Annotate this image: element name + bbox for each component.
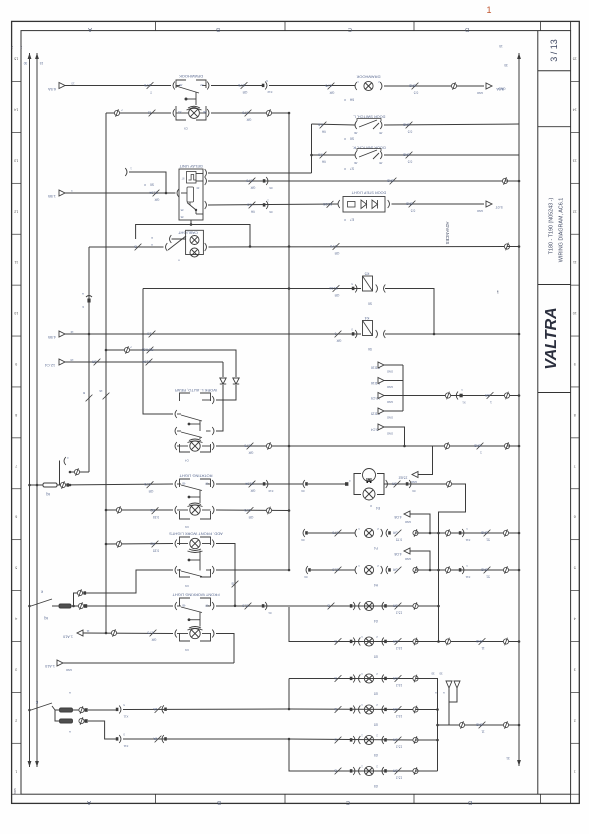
svg-text:GR: GR <box>250 489 255 493</box>
svg-text:-85: -85 <box>379 131 383 135</box>
svg-text:6: 6 <box>15 515 17 519</box>
svg-text:VALTRA: VALTRA <box>543 307 560 370</box>
svg-text:GR: GR <box>151 638 156 642</box>
svg-text:15.2: 15.2 <box>396 745 402 749</box>
svg-text:0.5: 0.5 <box>414 91 419 95</box>
svg-text:C9: C9 <box>185 648 189 652</box>
svg-text:S6: S6 <box>368 347 372 351</box>
svg-text:1.5B: 1.5B <box>48 194 56 198</box>
svg-text:ROTATING LIGHT: ROTATING LIGHT <box>179 474 213 479</box>
svg-text:30: 30 <box>504 63 508 67</box>
terminals row 446 right <box>444 443 449 448</box>
node bus GND vertical x289 <box>288 113 290 570</box>
jog wire fuse2 to row 739 <box>88 721 117 739</box>
svg-text:-87: -87 <box>200 83 204 87</box>
svg-text:DOOR STEP LIGHT: DOOR STEP LIGHT <box>351 191 386 195</box>
svg-text:GND: GND <box>387 416 393 420</box>
svg-text:11: 11 <box>14 260 18 264</box>
fuse F2 row 721 <box>60 719 73 723</box>
svg-text:GR: GR <box>246 118 251 122</box>
svg-text:GR: GR <box>392 531 397 535</box>
svg-text:31: 31 <box>506 756 510 760</box>
diode V1 <box>233 378 239 384</box>
ground output row 725 <box>438 724 520 726</box>
svg-text:GR: GR <box>154 198 159 202</box>
svg-text:DOOR SWITCH, L.: DOOR SWITCH, L. <box>353 115 386 119</box>
svg-text:6Q: 6Q <box>45 492 50 496</box>
svg-text:D: D <box>468 799 472 805</box>
svg-text:GR: GR <box>392 707 397 711</box>
svg-text:0.75: 0.75 <box>246 179 252 183</box>
svg-text:C4: C4 <box>185 459 189 463</box>
svg-text:18: 18 <box>70 358 74 362</box>
wire 12.C9 row to ground bus <box>403 395 519 397</box>
svg-text:B: B <box>334 639 336 643</box>
svg-text:av: av <box>496 290 500 294</box>
svg-text:B: B <box>334 738 336 742</box>
svg-text:0.75: 0.75 <box>325 84 331 88</box>
wire work auto lamp to right <box>216 445 507 447</box>
svg-text:GR: GR <box>329 91 334 95</box>
vertical wire x89 with inline joint <box>88 247 90 472</box>
connector 4.D8 stub row533 <box>410 514 430 533</box>
bottom lamp row y=740 G5 <box>335 737 342 744</box>
delay unit pin row 181 <box>205 177 207 185</box>
add front switch contacts <box>175 566 177 574</box>
svg-text:X11: X11 <box>465 575 470 579</box>
wire top edge work auto <box>143 288 289 290</box>
svg-text:13: 13 <box>14 158 18 162</box>
svg-text:16: 16 <box>99 389 103 393</box>
svg-text:11: 11 <box>573 260 577 264</box>
svg-text:4.5B: 4.5B <box>48 335 56 339</box>
row 709 right segment to collector <box>289 708 416 711</box>
collector vertical right bottom block <box>416 679 438 772</box>
svg-text:K5: K5 <box>365 272 370 276</box>
antenna symbols pair <box>446 681 452 688</box>
svg-text:GR: GR <box>484 393 489 397</box>
svg-text:2: 2 <box>15 718 17 722</box>
svg-text:0.75: 0.75 <box>396 538 402 542</box>
wire row 641 to ground bus <box>416 641 520 643</box>
svg-text:15: 15 <box>499 44 503 48</box>
svg-text:GR: GR <box>336 339 341 343</box>
wire door switch L to ground bus <box>384 124 519 125</box>
svg-text:51.0/5: 51.0/5 <box>323 202 332 206</box>
wire row 570 to ground bus <box>416 569 520 571</box>
svg-text:8: 8 <box>574 413 576 417</box>
wire 1.5B to delay unit pin 30 <box>65 192 176 194</box>
row 180 plain wire <box>288 180 290 182</box>
svg-text:11: 11 <box>481 730 485 734</box>
drawhook unit lamp <box>173 109 175 117</box>
svg-text:GR: GR <box>392 769 397 773</box>
svg-text:B: B <box>334 707 336 711</box>
vertical link door switches <box>311 124 313 173</box>
svg-text:GND: GND <box>480 568 488 572</box>
svg-text:1.5: 1.5 <box>147 332 152 336</box>
svg-text:51.5: 51.5 <box>332 568 338 572</box>
svg-text:12: 12 <box>573 209 577 213</box>
svg-text:GR: GR <box>248 451 253 455</box>
fuse F1 row 710 <box>60 708 73 712</box>
svg-text:X10: X10 <box>268 489 273 493</box>
svg-text:51.04: 51.04 <box>245 482 253 486</box>
svg-text:6H: 6H <box>349 98 354 102</box>
lamp row 606 right <box>364 601 373 610</box>
svg-text:0.5: 0.5 <box>318 153 323 157</box>
bus 15 left (vertical supply line 2) <box>35 53 39 59</box>
svg-text:8: 8 <box>15 413 17 417</box>
wire row 350 diode branch <box>106 350 236 377</box>
rotating light switch contacts <box>175 480 177 488</box>
svg-text:G5: G5 <box>374 692 378 696</box>
svg-text:1: 1 <box>480 451 482 455</box>
svg-text:B: B <box>83 391 85 395</box>
svg-text:GND: GND <box>475 723 483 727</box>
svg-text:GND: GND <box>405 557 411 561</box>
bottom zone band dividers <box>155 794 157 803</box>
svg-text:G5: G5 <box>374 784 378 788</box>
svg-text:15: 15 <box>14 57 18 61</box>
svg-text:2: 2 <box>574 718 576 722</box>
svg-text:K4: K4 <box>365 316 370 320</box>
svg-text:S6: S6 <box>150 183 154 187</box>
svg-text:0.75: 0.75 <box>244 444 250 448</box>
svg-text:0.75: 0.75 <box>238 83 244 87</box>
svg-text:51.04: 51.04 <box>142 360 150 364</box>
svg-text:E4: E4 <box>376 506 380 510</box>
svg-text:S6: S6 <box>368 302 372 306</box>
svg-text:GND: GND <box>387 370 393 374</box>
svg-text:GND: GND <box>408 84 416 88</box>
svg-text:1.A10: 1.A10 <box>45 664 55 668</box>
svg-text:-86: -86 <box>354 161 358 165</box>
svg-text:7: 7 <box>15 464 17 468</box>
svg-text:51: 51 <box>486 538 490 542</box>
wire row 607 to row 641 jog on x289 <box>289 607 416 642</box>
svg-text:GR: GR <box>91 360 96 364</box>
svg-text:14: 14 <box>14 107 18 111</box>
svg-text:2: 2 <box>11 45 13 49</box>
delay unit pin row 205 to door step light <box>205 201 207 209</box>
svg-text:ADVANCES: ADVANCES <box>445 222 450 245</box>
wire front working switch to right <box>216 605 439 607</box>
svg-text:15.2: 15.2 <box>396 611 402 615</box>
svg-text:D: D <box>465 26 469 32</box>
svg-text:F4: F4 <box>374 546 378 550</box>
bottom lamp row y=771 G5 <box>335 768 342 775</box>
jog x289 row 771 <box>289 739 416 771</box>
svg-text:1: 1 <box>486 5 491 15</box>
work auto box pins and contacts <box>175 410 177 418</box>
svg-text:0.5: 0.5 <box>408 160 413 164</box>
rotating beacon E4 (motor+lamp) <box>354 474 361 485</box>
wire add front lamp left feed <box>106 543 173 546</box>
svg-text:-85: -85 <box>179 83 183 87</box>
svg-text:X1: X1 <box>462 401 466 405</box>
svg-text:G4: G4 <box>374 619 378 623</box>
svg-text:1.A10: 1.A10 <box>63 635 73 639</box>
svg-text:15: 15 <box>40 61 44 65</box>
svg-text:13: 13 <box>573 158 577 162</box>
svg-text:M: M <box>366 476 372 483</box>
svg-text:4.D8: 4.D8 <box>394 515 401 519</box>
svg-text:14: 14 <box>573 107 577 111</box>
bottom lamp row y=709.5 G5 <box>335 706 342 713</box>
wire door step light to connector 5.0T <box>392 203 485 205</box>
svg-text:35: 35 <box>431 672 435 676</box>
wire row 113 from x106 to x289 bus <box>106 112 171 114</box>
svg-text:C9: C9 <box>185 584 189 588</box>
svg-text:-85: -85 <box>182 604 186 608</box>
left zone column ticks and numbers <box>12 81 21 83</box>
wire door switch R to ground bus <box>384 154 519 156</box>
delay unit internal relay contact <box>187 172 197 184</box>
svg-text:GND: GND <box>477 91 483 95</box>
title block strip <box>537 31 539 795</box>
svg-text:E7: E7 <box>350 218 354 222</box>
svg-text:GND: GND <box>66 668 72 672</box>
wire relay K5 to corner <box>385 289 434 335</box>
svg-text:9: 9 <box>15 362 17 366</box>
svg-text:GND: GND <box>411 480 417 484</box>
svg-text:B: B <box>134 245 136 249</box>
svg-text:6.5A: 6.5A <box>48 87 56 91</box>
svg-text:51.04: 51.04 <box>329 286 337 290</box>
diode V2 <box>222 362 224 377</box>
cab light switch lever <box>166 243 168 251</box>
svg-text:GND: GND <box>402 123 410 127</box>
svg-text:A: A <box>151 243 153 247</box>
svg-text:0.5: 0.5 <box>318 123 323 127</box>
svg-text:S6: S6 <box>350 137 354 141</box>
svg-text:RD: RD <box>150 542 155 546</box>
front working switch contacts <box>175 602 177 610</box>
svg-text:X9: X9 <box>304 575 308 579</box>
wire door switch left feed <box>312 124 356 125</box>
top zone band dividers <box>155 21 157 30</box>
svg-text:X11: X11 <box>123 715 128 719</box>
svg-text:B: B <box>217 799 221 805</box>
svg-text:51.5: 51.5 <box>242 604 248 608</box>
svg-text:11: 11 <box>148 111 152 115</box>
svg-text:B: B <box>334 676 336 680</box>
svg-text:GR: GR <box>392 639 397 643</box>
row 533 lamp circuit <box>303 529 305 537</box>
svg-text:X6: X6 <box>269 210 273 214</box>
svg-text:51: 51 <box>486 575 490 579</box>
add front lamp in box <box>175 540 177 548</box>
fuse row 606 <box>59 604 71 608</box>
svg-text:GND: GND <box>477 209 483 213</box>
svg-text:15.2: 15.2 <box>396 714 402 718</box>
svg-text:5.0T: 5.0T <box>495 205 503 209</box>
svg-text:DRAWHOOK: DRAWHOOK <box>179 74 203 79</box>
title block divider <box>538 126 571 128</box>
stub connector row 461 <box>64 457 66 465</box>
svg-text:6Q: 6Q <box>43 616 48 620</box>
svg-text:0.75: 0.75 <box>244 508 250 512</box>
svg-text:4.D8: 4.D8 <box>394 552 401 556</box>
svg-text:-86: -86 <box>354 131 358 135</box>
svg-text:GND: GND <box>480 531 488 535</box>
svg-text:15.2: 15.2 <box>396 683 402 687</box>
svg-text:11: 11 <box>86 629 89 633</box>
wire drawhook lamp to terminal <box>384 85 484 87</box>
inline terminal row 472 <box>70 471 89 473</box>
svg-text:WIRING DIAGRAM, AC6.1: WIRING DIAGRAM, AC6.1 <box>559 198 565 262</box>
svg-text:H4: H4 <box>374 583 378 587</box>
svg-text:5: 5 <box>574 566 576 570</box>
svg-text:GR: GR <box>242 90 247 94</box>
fuse row 485 from bus 30 <box>28 484 31 487</box>
svg-text:12: 12 <box>14 209 18 213</box>
row 740 right segment <box>289 739 416 740</box>
delay unit box <box>179 169 203 220</box>
svg-text:m: m <box>151 236 153 239</box>
svg-text:X9: X9 <box>301 489 305 493</box>
svg-text:0.75: 0.75 <box>242 111 248 115</box>
drawhook switch contacts <box>173 82 175 90</box>
svg-text:15.2: 15.2 <box>396 776 402 780</box>
svg-text:FRONT WORKING LIGHT: FRONT WORKING LIGHT <box>172 593 220 598</box>
svg-text:B: B <box>216 26 220 32</box>
svg-text:GR: GR <box>392 568 397 572</box>
VALTRA logo box <box>538 284 571 286</box>
svg-text:GR: GR <box>250 186 255 190</box>
svg-text:RD: RD <box>150 508 155 512</box>
collector vertical for connector fan <box>402 365 404 411</box>
svg-text:0.75: 0.75 <box>144 482 150 486</box>
drawhook switch unit 6H box (corner brackets) <box>176 80 186 88</box>
svg-text:4: 4 <box>574 617 576 621</box>
wire cab switch feed from x89 <box>89 246 164 248</box>
wire relay K4 to ground bus <box>385 333 519 335</box>
svg-text:G5: G5 <box>374 753 378 757</box>
svg-text:K: K <box>40 590 43 594</box>
svg-text:X13: X13 <box>267 90 272 94</box>
svg-text:0.75: 0.75 <box>330 244 336 248</box>
svg-text:0.5: 0.5 <box>408 130 413 134</box>
delay unit bottom wire to harness <box>190 220 192 225</box>
svg-text:GND: GND <box>387 432 393 436</box>
wire relay K5 feed from bus x289 <box>288 287 291 290</box>
delay unit pin row 173 to door switch link <box>205 169 207 177</box>
svg-text:A: A <box>87 799 91 805</box>
svg-text:GND: GND <box>386 179 394 183</box>
svg-text:30: 30 <box>24 61 28 65</box>
svg-text:N05: N05 <box>13 788 17 794</box>
branch connector 15.B2 stub <box>418 446 433 475</box>
svg-text:-87: -87 <box>205 482 209 486</box>
svg-text:GR: GR <box>334 251 339 255</box>
svg-text:-86: -86 <box>203 110 207 114</box>
svg-text:X11: X11 <box>123 744 128 748</box>
svg-text:5: 5 <box>15 566 17 570</box>
svg-text:0.75: 0.75 <box>147 631 153 635</box>
svg-text:0: 0 <box>334 332 336 336</box>
wire rotating switch to beacon <box>216 483 303 485</box>
svg-text:GR: GR <box>334 293 339 297</box>
wire to drawhook lamp 6H <box>269 85 355 87</box>
svg-text:10: 10 <box>14 311 18 315</box>
jog x289 row 678 <box>288 679 290 710</box>
connector 4.D8 stub upper <box>410 551 430 570</box>
wire 6.5A to drawhook unit <box>65 85 171 87</box>
svg-text:15.B2: 15.B2 <box>398 476 407 480</box>
svg-text:15.2: 15.2 <box>396 646 402 650</box>
svg-text:GND: GND <box>387 400 393 404</box>
svg-text:11: 11 <box>481 646 485 650</box>
svg-text:DRAWHOOK: DRAWHOOK <box>356 75 380 80</box>
svg-text:GR: GR <box>392 676 397 680</box>
svg-text:1F: 1F <box>70 330 74 334</box>
svg-text:5.C4: 5.C4 <box>371 428 378 432</box>
svg-text:C9: C9 <box>184 127 188 131</box>
svg-text:C9: C9 <box>185 525 189 529</box>
svg-text:C: C <box>348 26 352 32</box>
svg-text:5.0A: 5.0A <box>496 87 504 91</box>
svg-text:1: 1 <box>490 400 492 404</box>
svg-text:CABLIGHT: CABLIGHT <box>177 231 198 236</box>
svg-text:GND: GND <box>405 202 413 206</box>
wire beacon to ground chain <box>384 483 462 485</box>
wire cab light output to ground terminal <box>205 243 207 251</box>
bus 30 left (vertical supply line 1) <box>28 53 32 59</box>
wire front working lamp right down <box>216 634 234 664</box>
rotating light lamp in box <box>190 505 200 515</box>
front working lamp in box <box>175 630 177 638</box>
ground bus 31 right vertical <box>517 53 521 59</box>
inline connector X13 <box>262 84 265 87</box>
svg-text:GR: GR <box>392 604 397 608</box>
sheet number box 3/13 <box>538 70 571 72</box>
svg-text:G5: G5 <box>374 723 378 727</box>
svg-text:GND: GND <box>405 520 411 524</box>
svg-text:B: B <box>231 582 233 586</box>
wire rotating lamp left feed <box>106 509 173 511</box>
svg-text:B: B <box>327 604 329 608</box>
svg-text:GND: GND <box>473 444 481 448</box>
branch from fuse to add-front switch feed <box>74 570 174 606</box>
svg-text:B: B <box>334 769 336 773</box>
inline connector X row 710 <box>116 708 119 711</box>
svg-text:-85: -85 <box>182 482 186 486</box>
svg-text:C: C <box>346 799 350 805</box>
wire add front switch row to right <box>216 569 289 571</box>
svg-text:K: K <box>35 700 38 704</box>
svg-text:0.75: 0.75 <box>144 83 150 87</box>
svg-text:12.C4: 12.C4 <box>45 363 55 367</box>
svg-text:RD 0.35: RD 0.35 <box>141 348 153 352</box>
svg-text:51.04: 51.04 <box>149 191 157 195</box>
svg-text:3: 3 <box>574 667 576 671</box>
svg-text:S7: S7 <box>350 167 354 171</box>
svg-text:10: 10 <box>573 311 577 315</box>
svg-text:WORK L. AUTO, REAR: WORK L. AUTO, REAR <box>175 388 217 393</box>
svg-text:-81: -81 <box>178 110 182 114</box>
svg-text:35: 35 <box>439 672 443 676</box>
svg-text:GND: GND <box>475 639 483 643</box>
svg-text:GND: GND <box>402 153 410 157</box>
front work lamp E-left of pair <box>355 566 357 574</box>
wire rotating lamp right to bus x289 <box>216 509 289 512</box>
svg-text:X11: X11 <box>465 538 470 542</box>
svg-text:1: 1 <box>574 769 576 773</box>
svg-text:T: T <box>150 90 152 94</box>
svg-text:6: 6 <box>574 515 576 519</box>
